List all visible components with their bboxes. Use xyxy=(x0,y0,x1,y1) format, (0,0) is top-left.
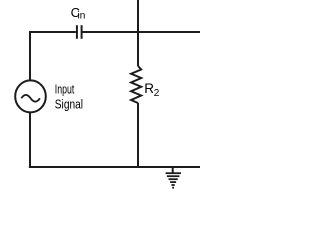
svg-text:2: 2 xyxy=(154,88,160,99)
svg-text:in: in xyxy=(78,11,86,22)
svg-text:R: R xyxy=(144,81,154,96)
svg-text:Input: Input xyxy=(55,83,75,97)
svg-text:Signal: Signal xyxy=(55,98,83,112)
